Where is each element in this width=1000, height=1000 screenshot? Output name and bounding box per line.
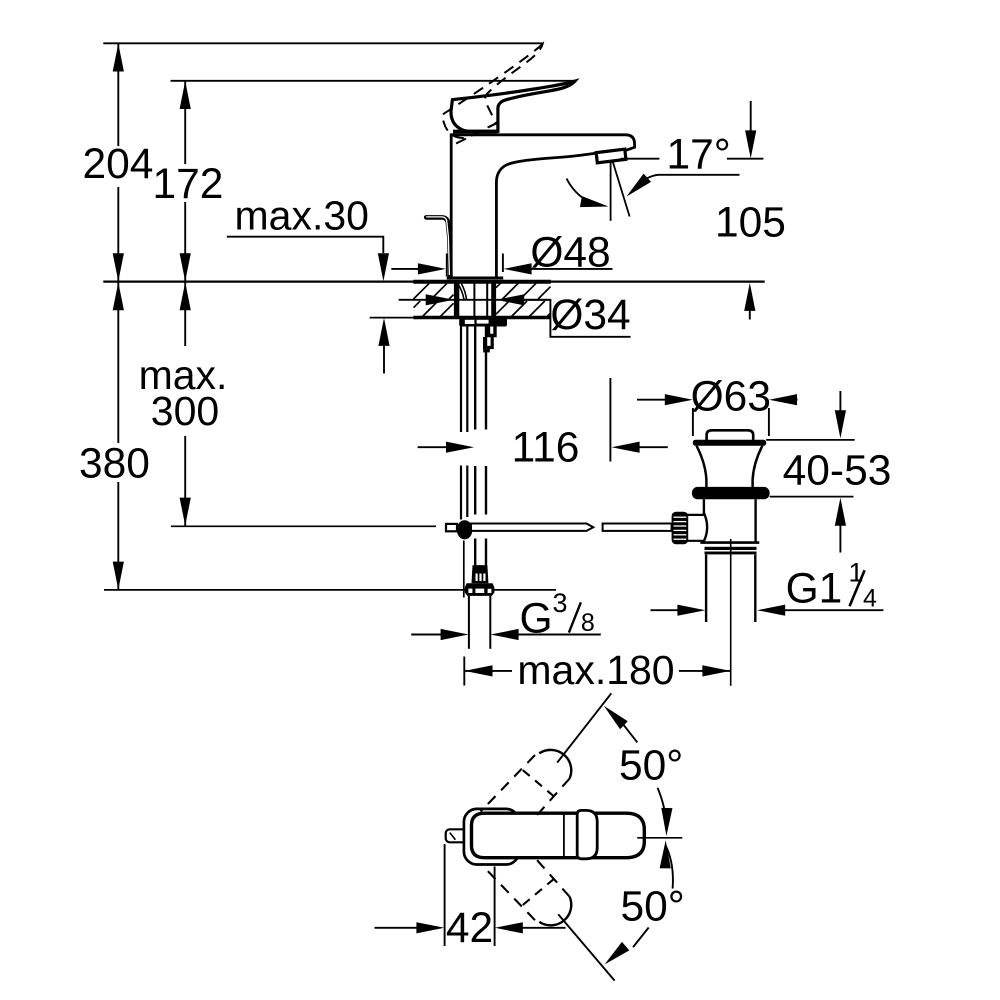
top view divider line — [563, 815, 565, 857]
svg-text:8: 8 — [581, 609, 595, 637]
aerator — [596, 149, 626, 163]
G3/8 fitting body — [472, 565, 489, 583]
reference line for max.300 (rod level) — [171, 525, 436, 527]
side port lines — [687, 515, 704, 541]
dimension max.180 — [464, 647, 730, 693]
drain cap — [707, 430, 754, 440]
G3/8 extension lines — [469, 596, 490, 649]
counter hatch row1 — [414, 283, 551, 299]
bracket stub — [483, 348, 490, 352]
svg-text:1: 1 — [849, 558, 864, 588]
svg-text:max.30: max.30 — [235, 193, 369, 239]
svg-text:3: 3 — [553, 588, 568, 618]
dimension 105 — [715, 101, 786, 320]
knurled adjuster knob — [672, 512, 689, 545]
svg-text:50°: 50° — [621, 884, 685, 931]
pop-up rod segment 2 — [603, 524, 672, 531]
counter hatch row2 — [414, 301, 551, 317]
svg-text:105: 105 — [715, 200, 786, 247]
dimension Ø48 — [391, 230, 612, 277]
bracket step 1 — [489, 327, 496, 336]
dashed handle rotated down — [481, 859, 572, 925]
dimension 116 — [418, 378, 668, 472]
drain centerline — [730, 539, 732, 686]
shank inner lines — [474, 283, 487, 317]
ray upper — [557, 693, 611, 762]
svg-text:50°: 50° — [619, 743, 683, 790]
svg-text:G: G — [520, 595, 553, 642]
svg-text:G1: G1 — [786, 566, 843, 613]
50 deg lower indicator — [601, 840, 685, 969]
drain funnel — [697, 446, 763, 488]
angle arc left — [567, 179, 610, 213]
dimension 172 — [153, 81, 224, 282]
rod centerline below ball — [463, 541, 465, 598]
reference line bottom (380 level) — [104, 589, 556, 591]
drain gasket — [692, 487, 770, 499]
reference line 2 (handle level) — [171, 80, 577, 82]
dashed handle rotated up — [481, 750, 572, 816]
svg-text:300: 300 — [151, 388, 219, 434]
dimension max.300 — [139, 282, 228, 526]
stream line tilted 17 deg — [613, 162, 630, 217]
svg-text:Ø34: Ø34 — [550, 292, 630, 339]
bracket step 2 — [485, 337, 493, 348]
dimension G 3/8 — [411, 588, 601, 643]
svg-text:max.180: max.180 — [517, 647, 674, 693]
drain body sides — [704, 499, 756, 542]
dimension 380 — [79, 282, 150, 590]
50 deg upper indicator — [600, 702, 683, 836]
counter top line — [103, 281, 764, 283]
nut slots — [465, 320, 475, 324]
spout level reference line — [621, 158, 764, 160]
flange reference line — [766, 439, 855, 441]
dimension G1 1/4 — [651, 558, 884, 616]
counter bottom line thin stub — [370, 317, 414, 319]
supply pipe lines — [475, 327, 486, 566]
top view handle — [472, 813, 645, 858]
pull rod knob — [426, 217, 450, 277]
tailpiece — [706, 555, 755, 622]
base plate — [447, 276, 503, 279]
gasket reference line — [770, 496, 854, 498]
drain flange — [693, 440, 766, 446]
dimension Ø63 — [637, 374, 798, 437]
handle solid — [451, 81, 575, 131]
ray lower — [558, 914, 614, 980]
stream line vertical — [610, 162, 612, 221]
dimension 42 — [375, 844, 566, 952]
counter hole right wall — [491, 283, 496, 317]
svg-text:Ø63: Ø63 — [691, 374, 771, 421]
top view pull tab — [446, 829, 468, 842]
drain groove ring — [705, 547, 757, 555]
svg-text:4: 4 — [863, 585, 877, 613]
angle leader right — [623, 174, 740, 201]
counter cut thick bottom edge — [413, 316, 551, 320]
dimension Ø34 — [426, 292, 631, 339]
svg-text:17°: 17° — [667, 132, 731, 179]
top view base square — [464, 809, 519, 865]
hose curves in hole — [458, 284, 467, 300]
counter cut thick top edge — [413, 280, 551, 284]
pop-up rod segment 1 — [471, 524, 593, 531]
counter hole left wall — [454, 283, 459, 317]
pull rod lines — [461, 327, 467, 520]
counter mid line — [399, 299, 551, 301]
dimension 40-53 — [783, 391, 892, 553]
base gasket — [447, 279, 504, 282]
drain bottom ring line — [700, 541, 759, 544]
svg-text:380: 380 — [79, 441, 150, 488]
dimension max.30 — [227, 193, 390, 374]
svg-text:42: 42 — [446, 905, 493, 952]
faucet body — [451, 135, 634, 279]
rod cotter — [446, 524, 457, 531]
svg-text:Ø48: Ø48 — [530, 230, 610, 277]
svg-text:116: 116 — [512, 425, 580, 472]
top view collar — [577, 810, 597, 858]
dimension 204 — [83, 43, 154, 281]
mounting nut — [459, 318, 507, 327]
svg-text:204: 204 — [83, 141, 154, 188]
G3/8 nut — [465, 583, 495, 596]
svg-text:40-53: 40-53 — [783, 447, 892, 494]
ball joint — [457, 520, 473, 539]
top view centerline — [637, 837, 682, 839]
reference line top (raised handle level) — [103, 42, 542, 44]
handle dashed (raised position) — [432, 44, 565, 144]
svg-text:172: 172 — [153, 161, 224, 208]
